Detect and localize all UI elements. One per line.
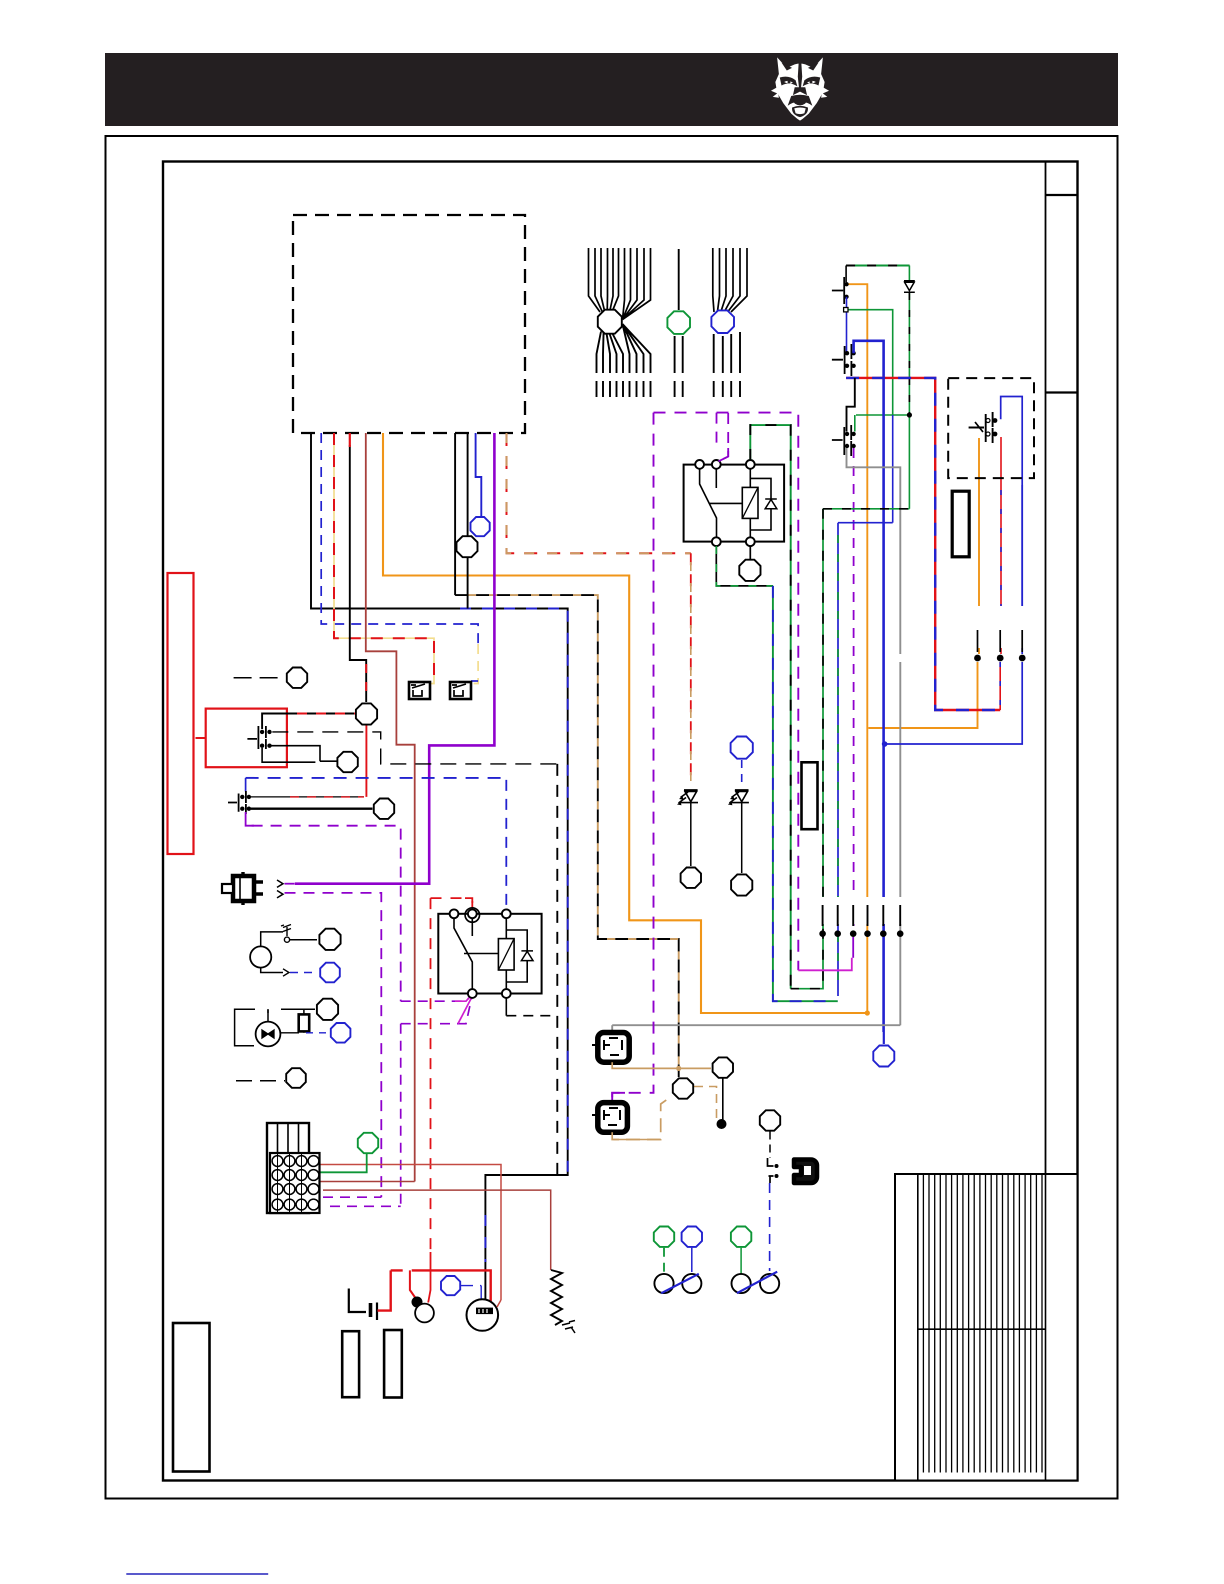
wire black LED1 to octagon C15 <box>690 803 692 867</box>
wire purple dashed box top leg <box>654 413 799 971</box>
connector C14 octagon below K1 <box>739 560 760 581</box>
junction dot diode/green <box>907 412 912 417</box>
wire R2 bottom <box>280 1031 304 1032</box>
connector C2 octagon green <box>667 311 690 334</box>
starter brush block <box>476 1308 493 1315</box>
switch S4 in accessory box <box>969 412 993 443</box>
pressure switch B1 body <box>233 876 254 901</box>
connector C20 octagon <box>760 1110 780 1130</box>
wire blue dash from C16 <box>741 760 743 788</box>
wire purple S6 below <box>246 812 401 1001</box>
wire orange above dot <box>978 438 980 654</box>
legend striped block <box>895 1174 1078 1481</box>
resistor R1 ground <box>562 1321 575 1334</box>
switch S1 <box>832 277 844 304</box>
connector C27 octagon blue <box>873 1046 894 1067</box>
wire blue diagonal pair2 <box>737 1272 777 1294</box>
title column divider 1 <box>1046 194 1078 196</box>
wire red dash main feed <box>391 1269 416 1271</box>
junction dot blue row <box>882 741 888 747</box>
wire magenta solid tail2 <box>458 997 472 1024</box>
relay K2 contacts <box>450 909 459 918</box>
wire S5 dashdot right <box>272 732 556 764</box>
wire yellow cont of ECU-B <box>471 644 478 684</box>
wire purple dash stub above magenta <box>852 937 854 958</box>
flasher lamp B7 <box>760 1274 779 1293</box>
diode D1 feed <box>908 266 910 282</box>
wire red dash to K2 <box>431 898 473 1252</box>
plug P1 body <box>794 1160 817 1184</box>
wire red S4 down <box>1000 437 1002 475</box>
wire brown to resistor <box>323 1190 551 1270</box>
LED indicator D2 <box>679 790 699 803</box>
switch S2 <box>832 344 852 376</box>
wire red dash overlay ECU-D <box>365 664 367 700</box>
switch S6 contacts <box>240 795 244 799</box>
wire red dash overlay S5 out <box>297 713 355 715</box>
wire S5 bottom2 <box>262 748 315 763</box>
wire gnd to C10 <box>290 939 317 941</box>
CDI module A2 <box>598 1103 628 1133</box>
wire black dash overlay2 <box>791 509 823 989</box>
wire blue K1 area horizontal <box>838 523 893 996</box>
harness row gap mask <box>814 897 908 924</box>
wire maroon ECU-E to terminal strip <box>366 433 415 1182</box>
inner diagram border <box>163 162 1078 1481</box>
terminal block TB1 striped <box>267 1123 309 1213</box>
title column line <box>1045 162 1047 1481</box>
relay K1 contacts <box>695 460 704 469</box>
wire green horizontal K1 area <box>823 508 909 510</box>
wire black dash overlay top link <box>846 265 909 267</box>
wire thin black S6 top <box>251 796 364 798</box>
main fuse FM rect <box>952 491 969 557</box>
wire red/blue dashed AC bus <box>846 378 1000 710</box>
wire green-blue overlay K1 out <box>716 546 773 586</box>
junction dots connector row right <box>974 655 981 662</box>
wire blue right mid <box>892 415 894 523</box>
flasher lamp B5 <box>682 1274 701 1293</box>
wire blue dash overlay west leg <box>773 586 838 1001</box>
harness wires below connector C3 <box>714 332 740 397</box>
wire purple to K1 coil <box>717 413 729 462</box>
wire dash below C20 <box>769 1132 771 1159</box>
wire blk ECU to main dashed bus <box>311 433 568 1307</box>
relay K1 diode <box>765 499 777 509</box>
wire red elbow K2 <box>465 898 472 903</box>
wire orange ignition feed <box>847 284 868 1013</box>
wire purple solid elbow <box>612 1093 625 1103</box>
wire black dash K2 to bus <box>506 1015 557 1017</box>
wire red key solid tail <box>428 1252 430 1303</box>
wire purple to relay K2 lower <box>401 995 472 1002</box>
wire black to switch S1 <box>845 266 847 283</box>
junction tan <box>676 1066 681 1071</box>
wire purple dash terminal row4 <box>330 1205 401 1207</box>
wire black S5 top out <box>262 714 355 730</box>
relay K1 diode loop <box>750 478 771 530</box>
wire green/black dashed top link <box>846 265 909 267</box>
connector C15 octagon <box>681 868 701 888</box>
title column divider 2 <box>1046 391 1078 393</box>
wire black dash K1 out bottom <box>716 546 773 586</box>
wire green C21 to lamp <box>663 1248 665 1274</box>
wire blue S1 to S2 <box>846 297 848 353</box>
fuse bar FL2 <box>384 1330 402 1398</box>
wire purple main feed <box>295 433 495 884</box>
header title bar <box>105 53 1118 126</box>
wire green S1 branch <box>846 310 893 415</box>
wire green dash overlay blue drop <box>837 535 839 985</box>
wire red dash ECU-C overlay <box>334 433 434 684</box>
harness row stubs <box>823 905 901 926</box>
LED indicator D3 <box>729 790 749 803</box>
harness wires below connector C1 <box>597 324 651 397</box>
wire magenta solid tail <box>455 995 472 1002</box>
flasher lamp B6 <box>732 1274 751 1293</box>
sender circle B2 <box>250 946 271 967</box>
accessory dashed box <box>948 378 1034 478</box>
relay K1 box <box>684 465 785 542</box>
harness wires above connector C1 <box>589 248 651 320</box>
wire gray below dot <box>612 662 900 1025</box>
relay K2 diode loop <box>506 930 527 982</box>
connector C21 octagon green <box>654 1227 674 1247</box>
wire blue dash overlay on main bus <box>460 609 568 1263</box>
connector C23 octagon green <box>731 1227 751 1247</box>
wire green junction to S3 <box>854 415 856 432</box>
controller U1 dashed box <box>293 215 525 433</box>
switch S3 <box>832 425 851 456</box>
wire tan octagon C20 lead <box>614 1139 661 1141</box>
wire red/tan dash to LED1 <box>690 553 692 783</box>
wire blk dashed branch bus <box>556 764 558 1175</box>
connector C22 octagon blue <box>682 1227 702 1247</box>
connector C1 octagon <box>598 310 622 334</box>
switch S2 contacts <box>845 351 849 355</box>
terminal block TB1 grid <box>270 1153 320 1213</box>
connector C12 octagon <box>317 999 338 1020</box>
switch S3 contacts <box>845 432 849 436</box>
wire red lamp circuit <box>999 475 1002 710</box>
relay K1 switch arm <box>700 469 743 537</box>
contact square S1 branch <box>844 308 848 312</box>
connector C5 octagon <box>457 536 478 557</box>
wire blue ECU-I to octagon C4 <box>476 433 482 516</box>
wire purple dashed box left leg <box>612 413 653 1103</box>
wire red branch to key <box>410 1270 416 1298</box>
wire orange ECU-F long run <box>383 433 866 1013</box>
fuse bar FL1 <box>342 1331 359 1397</box>
wire blue C22 to lamp <box>691 1248 693 1272</box>
junction dots harness row <box>819 930 826 937</box>
wire black below C19 <box>722 1078 724 1120</box>
wire black dashed ECU-G to CDI area <box>455 595 679 1077</box>
switch S4 contacts <box>986 419 990 423</box>
diode D1 <box>904 281 915 293</box>
connector C8 octagon <box>337 752 357 772</box>
wire blue dash P1 to D6 <box>769 1183 771 1271</box>
wire tan CDI2 out <box>612 1096 672 1140</box>
wire tan overlay ECU-J <box>507 433 691 553</box>
wire red stub into box <box>196 737 206 739</box>
wire black dash overlay diode run <box>908 293 910 415</box>
flasher lamp B4 <box>654 1274 673 1293</box>
wire blue dashed ECU-B <box>321 433 478 644</box>
outer page border <box>106 136 1118 1499</box>
connector C26 octagon blue <box>441 1276 460 1295</box>
wire thin red starter right <box>497 1300 501 1307</box>
wire purple link S6 <box>246 820 254 826</box>
wire black LED2 to octagon C17 <box>741 803 743 874</box>
battery charge rect <box>168 573 194 854</box>
wire blue diagonal pair1 <box>661 1274 699 1293</box>
logo wolf head <box>771 57 829 120</box>
connector C18 octagon <box>673 1078 693 1098</box>
wire black dash overlay K1 loop <box>750 425 790 989</box>
pressure switch B1 detail <box>239 876 241 901</box>
wire blue dash B2 to C11 <box>290 972 318 974</box>
wire red/black ECU-D to octagon C7 <box>350 445 366 702</box>
wire green/blue dashed west leg <box>773 586 838 1001</box>
pressure switch B1 port <box>222 884 233 893</box>
wire brown terminal row2 <box>320 1181 415 1183</box>
harness wires below connector C2 <box>675 336 683 397</box>
wire blue C27 stub <box>883 1032 885 1044</box>
wire purple dash below S3 <box>853 448 855 930</box>
wire B2 to ground sym <box>261 932 283 947</box>
connector C10 octagon <box>319 929 340 950</box>
wire purple dash terminal row3 <box>323 1196 381 1198</box>
resistor R2 <box>299 1014 310 1031</box>
connector C9 octagon <box>374 799 394 819</box>
wire yellow ECU-C base <box>334 433 434 684</box>
wire tan overlay ECU-G <box>468 595 679 1077</box>
junction dot orange corner <box>865 1010 870 1015</box>
switch S5 contacts <box>260 730 264 734</box>
wire S5 bottom to C8 <box>270 746 337 762</box>
wire red stub ECU-D <box>349 433 351 447</box>
wire magenta link to relay K2 <box>798 958 852 971</box>
wire red battery riser <box>378 1270 391 1310</box>
battery plate thick <box>369 1303 373 1317</box>
wire green diode to junction <box>856 293 909 509</box>
arrow contacts B1 <box>277 880 283 898</box>
harness wires above connector C3 <box>713 248 747 312</box>
switch S4 lever <box>975 422 983 432</box>
battery B+ gnd symbol <box>349 1289 377 1321</box>
connector C24 octagon <box>286 1068 306 1088</box>
wire purple lower branch <box>401 997 472 1207</box>
wire orange lamp branch <box>868 662 977 728</box>
harness wire above connector C2 <box>678 249 680 310</box>
wire red main feed solid <box>416 1270 491 1301</box>
wire thick black S6 bottom to C9 <box>251 808 373 810</box>
wire dashdot to C6 <box>234 677 286 679</box>
key switch circle B8 <box>415 1304 434 1323</box>
wire blue dash segs <box>1021 485 1023 640</box>
connector C3 octagon blue <box>711 310 734 333</box>
wire blue dashed accessory row <box>246 777 507 779</box>
wire black stub K2 bottom <box>505 998 507 1016</box>
relay K2 box <box>438 914 541 994</box>
terminal dot ground stud <box>717 1119 727 1129</box>
wire blue dash overlay red lamp wire <box>999 490 1002 706</box>
wire black dash overlay <box>823 508 909 510</box>
switch S6 <box>228 791 246 814</box>
relay K2 top ring <box>465 908 479 922</box>
switch S5 in red box <box>247 726 266 749</box>
wire green K1 to bus loop <box>750 425 790 989</box>
wire black ECU-G solid drop <box>454 433 456 595</box>
connector C13 octagon blue <box>331 1023 351 1043</box>
wire red below C7 <box>365 726 367 797</box>
wire tan C18 branch <box>694 1087 717 1119</box>
starter motor M1 <box>467 1299 499 1331</box>
wire blue headlight circuit <box>885 397 1023 745</box>
plug P1 pigtail dots <box>775 1164 779 1168</box>
wire tan CDI1 out <box>612 1062 711 1068</box>
connector C17 octagon <box>731 874 752 895</box>
key switch dot <box>412 1297 423 1308</box>
fuse F1 <box>409 682 430 699</box>
wire green octagon to block <box>320 1154 367 1172</box>
fuse FM2 rect <box>802 762 818 829</box>
wire red dashed ECU-J east <box>507 433 691 553</box>
wire green/black vertical to dot row <box>791 509 823 989</box>
wire purple dashed sensor line2 <box>285 893 382 1197</box>
wire purple solid sensor line <box>285 883 295 885</box>
wire B2 bottom arrow <box>261 968 283 973</box>
connector C6 octagon <box>287 668 307 688</box>
wire black S2 to S3 <box>847 378 855 432</box>
wire red dash overlay S6 top <box>290 796 364 798</box>
wire gray to CDI1 <box>611 1025 613 1032</box>
frame rect bottom left <box>173 1323 210 1472</box>
lamp module red box <box>206 709 287 768</box>
wire blue drop to S6 <box>245 778 247 792</box>
ground symbol G1 <box>281 925 291 937</box>
fuel sender B3 <box>256 1022 281 1047</box>
wire blue dash to K2 coil <box>505 780 507 909</box>
connector C4 octagon blue <box>471 517 490 536</box>
relay K1 coil <box>742 487 758 518</box>
connector C16 octagon blue <box>731 737 753 759</box>
connector C11 octagon blue <box>320 963 340 983</box>
relay K2 diode <box>521 951 533 961</box>
resistor R1 zigzag <box>551 1270 562 1325</box>
wire gray S3 ground run <box>847 448 901 654</box>
wire tan overlay LED1 <box>690 562 692 783</box>
footer rule <box>126 1573 268 1575</box>
wire black ECU-H through octagon C5 <box>467 433 469 609</box>
switch S1 contacts <box>844 282 848 286</box>
relay K2 coil <box>498 939 514 970</box>
wire blue thick start circuit <box>854 341 884 1032</box>
arrow B2 <box>283 969 289 976</box>
wire B3 top link <box>267 1009 269 1021</box>
wire thin red terminal to starter <box>320 1165 501 1301</box>
connector C25 octagon green <box>358 1133 378 1153</box>
fuel sender loop wire <box>235 1009 315 1046</box>
wire blue stub to fuse F2 <box>471 680 478 682</box>
wire green C23 to lamp <box>740 1248 742 1274</box>
wire dashdot to C24 <box>236 1080 285 1082</box>
plug P1 pigtails <box>768 1158 774 1183</box>
pressure switch B1 pins <box>243 872 263 905</box>
relay K2 switch arm <box>454 918 498 989</box>
CDI module A1 <box>598 1033 629 1063</box>
wire blue dash to C13 <box>306 1032 329 1034</box>
connector C7 octagon <box>356 703 377 724</box>
wire blue dashdot C26 to starter <box>461 1285 481 1287</box>
lamp row stubs <box>978 630 1023 652</box>
wire purple solid tail K1 <box>719 448 729 461</box>
lamp row gap mask <box>970 606 1030 648</box>
connector C19 octagon <box>713 1057 733 1077</box>
wire blue dash overlay AC bus <box>846 378 1000 710</box>
fuse F2 <box>450 682 471 699</box>
